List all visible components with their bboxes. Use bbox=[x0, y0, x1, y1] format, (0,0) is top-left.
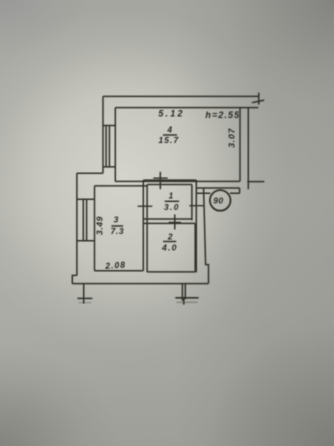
wall band under room4 upper line bbox=[115, 180, 240, 182]
window W1 panes bbox=[106, 126, 109, 167]
bottom-left corner jog bbox=[72, 275, 77, 283]
svg-text:2: 2 bbox=[167, 232, 173, 242]
wall bottom inner room3 bbox=[95, 270, 144, 272]
underline room2 bbox=[163, 241, 176, 243]
svg-text:4.0: 4.0 bbox=[161, 243, 178, 253]
bottom-middle stub lines bbox=[182, 284, 185, 301]
break tick top-right cross bbox=[252, 100, 264, 103]
svg-text:90: 90 bbox=[213, 196, 223, 206]
svg-text:3: 3 bbox=[114, 215, 119, 225]
rooms right wall mid bbox=[195, 180, 197, 272]
svg-text:3.07: 3.07 bbox=[226, 127, 236, 147]
hall wall hook bbox=[239, 188, 241, 193]
wall band lower line / room3 top bbox=[95, 185, 148, 187]
break tick top-right vertical bbox=[258, 93, 260, 105]
bottom-middle stub tick bbox=[175, 297, 198, 299]
window W2 caps bbox=[77, 199, 95, 241]
wall left inner upper bbox=[114, 108, 116, 182]
wall bottom inner room2 bbox=[147, 271, 195, 273]
room1 right wall inner bbox=[191, 185, 193, 221]
bottom-left stub ghost tick bbox=[79, 302, 92, 304]
svg-text:4: 4 bbox=[166, 124, 172, 134]
right outer wall lower bbox=[204, 188, 209, 283]
wall right inner (room 4) bbox=[239, 108, 241, 182]
wall right outer (room 4) bbox=[247, 108, 249, 190]
partition rooms1-2 lines bbox=[143, 219, 195, 223]
underline room3 bbox=[111, 225, 123, 227]
wall left outer lower bbox=[76, 173, 78, 275]
svg-text:1: 1 bbox=[169, 192, 174, 201]
wall left outer upper bbox=[102, 96, 104, 173]
bottom-middle stub tail bbox=[183, 298, 185, 305]
svg-text:2.08: 2.08 bbox=[104, 259, 126, 270]
wall top inner bbox=[115, 107, 258, 109]
svg-text:3.49: 3.49 bbox=[95, 216, 105, 235]
room2 right wall inner bbox=[194, 223, 196, 272]
bottom-left stub tick bbox=[77, 297, 92, 299]
room1 left wall lines bbox=[143, 180, 147, 272]
wall left jog outer bbox=[77, 172, 103, 174]
svg-text:15.7: 15.7 bbox=[159, 135, 180, 145]
circle 90 bbox=[210, 190, 231, 211]
door tick room1 left cross bbox=[138, 205, 153, 207]
hall top wall lines bbox=[196, 188, 239, 193]
door tick room1 top bbox=[159, 172, 161, 189]
door tick room1 top cross bbox=[153, 177, 167, 179]
svg-text:3.0: 3.0 bbox=[164, 202, 180, 212]
window W1 caps bbox=[103, 126, 116, 167]
bottom-middle stub ghost tick bbox=[177, 301, 198, 303]
wall top outer bbox=[103, 95, 259, 97]
underline room1 bbox=[165, 200, 179, 202]
window W2 panes bbox=[83, 199, 86, 241]
bottom-left stub bbox=[83, 284, 85, 304]
door tick partition cross bbox=[169, 221, 182, 223]
underline room4 bbox=[163, 134, 177, 136]
door tick right wall cross bbox=[189, 205, 204, 207]
svg-text:7.3: 7.3 bbox=[111, 226, 124, 236]
break tick right cross bbox=[247, 181, 264, 183]
svg-text:h=2.55: h=2.55 bbox=[205, 110, 240, 120]
wall left inner lower bbox=[94, 186, 96, 271]
room1 top wall lines bbox=[143, 180, 196, 184]
door tick partition vertical bbox=[174, 214, 176, 229]
svg-text:5.12: 5.12 bbox=[158, 109, 184, 119]
wall bottom outer bbox=[72, 283, 208, 285]
